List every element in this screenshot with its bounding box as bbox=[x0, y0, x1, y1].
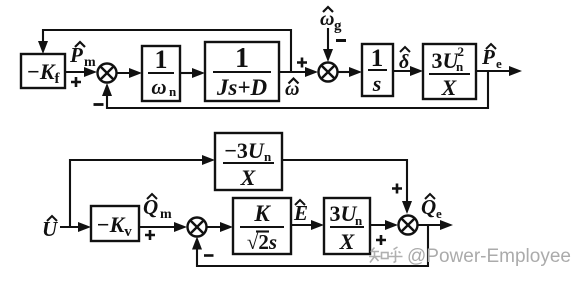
svg-text:X: X bbox=[441, 75, 458, 100]
wire S2 to 1/s bbox=[338, 67, 363, 77]
block -3Un/X bbox=[215, 133, 282, 190]
plus sign at S4 left input bbox=[376, 235, 386, 245]
svg-text:−Kf: −Kf bbox=[26, 59, 60, 87]
wire P_e feedback down and left into S1 bottom bbox=[102, 71, 488, 108]
plus sign at S1 left input bbox=[71, 77, 81, 87]
svg-text:e: e bbox=[436, 206, 442, 221]
wire P_e output bbox=[476, 66, 522, 76]
wire 1/s to 3Un2/X bbox=[393, 66, 423, 76]
block -Kv bbox=[91, 206, 139, 241]
block 3Un^2/X bbox=[423, 44, 476, 100]
svg-text:1: 1 bbox=[155, 45, 168, 74]
label Q_e hat bbox=[421, 194, 442, 221]
summing junction S3 bbox=[188, 218, 207, 237]
svg-text:√2s: √2s bbox=[247, 230, 277, 254]
block K/(sqrt2 s) bbox=[233, 198, 291, 254]
svg-text:1: 1 bbox=[371, 45, 384, 72]
svg-text:−3U: −3U bbox=[224, 138, 265, 163]
wire K/sqrt2s to 3Un/X bbox=[291, 220, 324, 230]
wire tap up to -3Un/X branch bbox=[70, 155, 215, 227]
label omega_g hat bbox=[320, 7, 342, 34]
svg-text:X: X bbox=[240, 165, 257, 190]
wire S3 to K/sqrt2s bbox=[207, 222, 234, 232]
wire 1/(Js+D) to S2 with tap node at x=291 bbox=[279, 67, 318, 77]
wire Q_e output bbox=[418, 220, 454, 230]
label delta hat bbox=[399, 47, 410, 73]
minus sign at S3 bottom feedback bbox=[204, 254, 214, 257]
label E hat bbox=[293, 200, 308, 225]
wire Q_e feedback down and left into S3 bottom bbox=[192, 225, 428, 266]
wire top feedback from omega node down into -Kf bbox=[38, 30, 291, 72]
label P_e hat bbox=[481, 44, 502, 71]
block 1/s bbox=[362, 44, 393, 96]
svg-text:m: m bbox=[160, 207, 172, 222]
svg-text:Js+D: Js+D bbox=[216, 75, 268, 100]
label omega hat bbox=[285, 78, 299, 100]
svg-text:n: n bbox=[355, 213, 363, 228]
summing junction S2 bbox=[319, 63, 338, 82]
wire -Kf output to summing junction S1 bbox=[65, 67, 97, 77]
summing junction S4 bbox=[399, 216, 418, 235]
watermark zhihu Power-Employee bbox=[369, 246, 571, 267]
wire -Kv to S3 bbox=[139, 222, 187, 232]
plus sign at S3 left input bbox=[145, 230, 155, 240]
block 3Un/X bbox=[324, 198, 370, 254]
wire S1 to block 1/omega_n bbox=[117, 68, 143, 78]
svg-text:δ: δ bbox=[399, 51, 409, 73]
svg-text:n: n bbox=[264, 149, 272, 164]
wire omega_g down into S2 bbox=[323, 28, 333, 62]
label U hat (bottom input) bbox=[42, 216, 59, 241]
svg-text:e: e bbox=[496, 56, 502, 71]
svg-text:2: 2 bbox=[458, 44, 465, 59]
svg-text:g: g bbox=[334, 18, 342, 34]
svg-text:s: s bbox=[372, 71, 382, 96]
block -Kf bbox=[21, 54, 65, 88]
plus sign at S2 left input bbox=[297, 58, 307, 68]
svg-text:@Power-Employee: @Power-Employee bbox=[407, 246, 571, 267]
wire 1/omega_n to 1/(Js+D) bbox=[180, 68, 205, 78]
svg-text:P: P bbox=[481, 45, 495, 69]
svg-text:n: n bbox=[169, 84, 177, 99]
svg-text:ω: ω bbox=[151, 75, 166, 99]
minus sign at omega_g arrow bbox=[336, 39, 346, 42]
wire -3Un/X output right and down into S4 top bbox=[282, 160, 412, 214]
svg-text:−Kv: −Kv bbox=[96, 212, 132, 240]
wire U input to -Kv with tap node bbox=[60, 222, 91, 232]
svg-text:K: K bbox=[253, 201, 271, 226]
svg-text:X: X bbox=[339, 229, 356, 254]
summing junction S1 bbox=[98, 64, 117, 83]
svg-text:3U: 3U bbox=[330, 201, 358, 226]
block 1/(Js+D) bbox=[205, 42, 279, 101]
wire 3Un/X to S4 bbox=[370, 220, 398, 230]
minus sign at S1 bottom feedback bbox=[94, 103, 104, 106]
plus sign at S4 top input bbox=[392, 184, 402, 194]
block 1/omega_n bbox=[142, 45, 180, 101]
label P_m hat bbox=[69, 42, 96, 70]
svg-text:1: 1 bbox=[235, 43, 249, 74]
svg-text:n: n bbox=[456, 59, 464, 74]
label Q_m hat bbox=[143, 194, 172, 222]
